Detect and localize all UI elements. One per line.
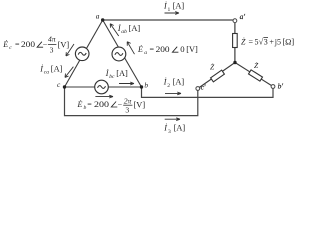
svg-text:bc: bc xyxy=(109,74,115,80)
svg-text:a: a xyxy=(144,50,147,56)
wire: delta left edge c-a xyxy=(65,20,103,87)
svg-text:İ: İ xyxy=(163,1,167,10)
svg-text:ca: ca xyxy=(44,70,49,76)
terminal b' (open circle) xyxy=(271,85,275,89)
wire: a' down to Z box xyxy=(234,23,236,34)
arrow Ica xyxy=(65,67,73,78)
svg-text:Ė: Ė xyxy=(137,45,143,54)
svg-text:İ: İ xyxy=(39,64,43,73)
svg-text:+: + xyxy=(269,37,274,46)
svg-text:Ż: Ż xyxy=(210,63,215,72)
svg-text:c′: c′ xyxy=(201,83,206,92)
arrow I3 xyxy=(165,118,180,121)
svg-text:c: c xyxy=(9,45,12,51)
node a (dot) xyxy=(101,18,104,21)
svg-text:2: 2 xyxy=(167,83,170,89)
svg-text:1: 1 xyxy=(168,7,171,13)
svg-text:3: 3 xyxy=(168,129,171,135)
svg-text:=: = xyxy=(150,45,155,54)
svg-text:[A]: [A] xyxy=(51,64,63,73)
wire: Z box to star center xyxy=(234,48,236,63)
source Ea (right circle) xyxy=(112,47,126,61)
svg-text:[A]: [A] xyxy=(129,24,141,33)
svg-text:İ: İ xyxy=(117,24,121,33)
arrow Eb emf xyxy=(95,95,113,98)
svg-text:4π: 4π xyxy=(48,35,56,44)
svg-text:Ė: Ė xyxy=(2,40,8,49)
star center node (dot) xyxy=(233,61,236,64)
arrow Ibc xyxy=(119,82,134,85)
svg-text:İ: İ xyxy=(163,77,167,86)
wire: star center to b' diagonal xyxy=(235,63,273,87)
svg-text:[A]: [A] xyxy=(116,69,128,78)
svg-text:[A]: [A] xyxy=(173,77,185,86)
svg-text:ab: ab xyxy=(121,29,127,35)
svg-text:[V]: [V] xyxy=(186,45,198,54)
wire: delta bottom edge c-b xyxy=(65,86,142,88)
arrow I2 xyxy=(165,92,181,95)
arrow I1 xyxy=(165,12,180,15)
svg-text:b′: b′ xyxy=(278,82,284,91)
svg-text:=: = xyxy=(249,37,254,46)
angle symbol for Eb xyxy=(111,102,117,108)
svg-text:200: 200 xyxy=(21,39,36,49)
angle symbol for Ea xyxy=(172,47,178,53)
svg-text:Ė: Ė xyxy=(77,100,83,109)
svg-text:[A]: [A] xyxy=(173,1,185,10)
arrow Ec emf xyxy=(66,44,74,56)
impedance Z2 (left diagonal box) xyxy=(211,70,225,82)
svg-text:3: 3 xyxy=(125,105,129,114)
impedance Z1 (vertical box) xyxy=(233,34,238,48)
wire: line b to b' (I2) xyxy=(142,87,274,97)
svg-text:b: b xyxy=(144,81,148,90)
wire: top line a to a' xyxy=(103,19,233,21)
svg-text:Ż: Ż xyxy=(241,37,246,46)
svg-text:[Ω]: [Ω] xyxy=(282,37,294,46)
delta edges xyxy=(65,20,142,87)
svg-text:2π: 2π xyxy=(124,96,132,105)
svg-text:Ż: Ż xyxy=(254,61,259,70)
source Eb (bottom circle) xyxy=(95,80,109,94)
svg-text:=: = xyxy=(87,100,92,109)
node b (dot) xyxy=(140,85,143,88)
arrow Ea emf xyxy=(127,42,134,55)
svg-text:a: a xyxy=(96,12,100,21)
arrow Iab xyxy=(110,24,119,36)
svg-text:−: − xyxy=(118,100,123,109)
svg-text:3: 3 xyxy=(50,45,54,54)
svg-text:İ: İ xyxy=(105,69,109,78)
svg-text:[V]: [V] xyxy=(134,100,146,109)
svg-text:a′: a′ xyxy=(240,12,246,21)
node c (dot) xyxy=(63,85,66,88)
svg-text:=: = xyxy=(15,40,20,49)
svg-text:[A]: [A] xyxy=(174,124,186,133)
svg-text:İ: İ xyxy=(163,124,167,133)
svg-text:[V]: [V] xyxy=(58,41,70,50)
svg-text:c: c xyxy=(57,80,61,89)
terminal a' (open circle) xyxy=(233,19,237,23)
svg-text:200: 200 xyxy=(156,44,171,54)
impedance Z3 (right diagonal box) xyxy=(249,70,263,81)
svg-text:0: 0 xyxy=(180,44,185,54)
svg-text:b: b xyxy=(84,105,87,111)
terminal c' (open circle) xyxy=(196,87,200,91)
source Ec (left circle) xyxy=(75,47,89,61)
svg-text:3: 3 xyxy=(264,37,268,46)
svg-text:200: 200 xyxy=(94,99,110,109)
svg-text:j5: j5 xyxy=(274,37,281,46)
wire: delta right edge a-b xyxy=(103,20,142,87)
wire: line c to c' (I3) xyxy=(65,87,198,116)
angle symbol for Ec xyxy=(37,42,43,48)
wire: star center to c' diagonal xyxy=(198,63,235,89)
